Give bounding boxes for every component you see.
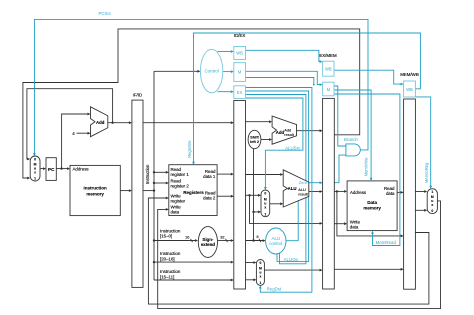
- svg-text:Shift: Shift: [250, 135, 259, 139]
- svg-text:result: result: [284, 132, 294, 137]
- svg-text:Address: Address: [73, 167, 90, 172]
- svg-text:RegDst: RegDst: [267, 286, 282, 291]
- svg-text:Add: Add: [276, 130, 285, 135]
- svg-text:WB: WB: [325, 67, 332, 72]
- svg-text:M: M: [238, 70, 242, 75]
- svg-text:result: result: [298, 192, 308, 197]
- svg-text:Instruction: Instruction: [160, 269, 181, 274]
- svg-text:6: 6: [257, 235, 259, 239]
- svg-text:memory: memory: [363, 206, 381, 211]
- svg-text:0: 0: [264, 191, 266, 195]
- svg-text:1: 1: [259, 281, 261, 285]
- svg-text:Instruction: Instruction: [160, 228, 181, 233]
- svg-text:0: 0: [259, 261, 261, 265]
- svg-text:data: data: [350, 225, 359, 230]
- svg-text:ID/EX: ID/EX: [234, 33, 246, 38]
- svg-text:EX/MEM: EX/MEM: [319, 53, 337, 58]
- svg-text:x: x: [431, 203, 433, 207]
- svg-text:MEM/WB: MEM/WB: [400, 72, 419, 77]
- svg-text:left 2: left 2: [250, 140, 259, 144]
- svg-text:memory: memory: [86, 191, 104, 196]
- svg-text:[15–11]: [15–11]: [160, 274, 174, 279]
- svg-text:MemtoReg: MemtoReg: [424, 162, 429, 183]
- svg-text:PC: PC: [48, 167, 55, 172]
- svg-text:32: 32: [220, 236, 224, 240]
- svg-text:16: 16: [185, 236, 189, 240]
- svg-text:data: data: [171, 209, 180, 214]
- svg-text:x: x: [259, 274, 261, 278]
- svg-text:Control: Control: [205, 69, 219, 74]
- svg-text:x: x: [34, 171, 36, 175]
- svg-text:ALUSrc: ALUSrc: [285, 146, 301, 151]
- svg-text:Branch: Branch: [344, 137, 358, 142]
- svg-text:Address: Address: [350, 190, 367, 195]
- svg-text:MemWrite: MemWrite: [363, 157, 368, 177]
- svg-text:Instruction: Instruction: [83, 186, 107, 191]
- svg-text:1: 1: [264, 212, 266, 216]
- svg-text:[15–0]: [15–0]: [160, 234, 172, 239]
- svg-text:Zero: Zero: [299, 180, 308, 185]
- svg-text:extend: extend: [201, 242, 215, 247]
- svg-text:ALU: ALU: [288, 186, 297, 191]
- svg-text:0: 0: [431, 209, 433, 213]
- svg-text:[20–16]: [20–16]: [160, 256, 175, 261]
- svg-text:Add: Add: [96, 120, 105, 125]
- svg-text:WB: WB: [406, 87, 413, 92]
- svg-text:data 1: data 1: [203, 174, 216, 179]
- svg-text:WB: WB: [236, 51, 243, 56]
- svg-text:Registers: Registers: [183, 190, 204, 195]
- svg-text:register 1: register 1: [171, 172, 190, 177]
- svg-text:IF/ID: IF/ID: [133, 93, 143, 98]
- svg-text:M: M: [327, 87, 331, 92]
- svg-text:RegWrite: RegWrite: [187, 140, 192, 158]
- svg-text:register: register: [171, 198, 186, 203]
- svg-text:x: x: [264, 205, 266, 209]
- svg-text:Instruction: Instruction: [145, 164, 150, 184]
- svg-text:control: control: [269, 241, 282, 246]
- svg-text:Instruction: Instruction: [160, 251, 181, 256]
- svg-text:ALUOp: ALUOp: [284, 257, 299, 262]
- svg-text:data 2: data 2: [203, 196, 216, 201]
- svg-text:EX: EX: [237, 90, 243, 95]
- svg-text:1: 1: [431, 190, 433, 194]
- svg-text:data: data: [386, 191, 395, 196]
- svg-text:PCSrc: PCSrc: [98, 11, 111, 16]
- svg-text:1: 1: [34, 177, 36, 181]
- svg-text:register 2: register 2: [171, 183, 190, 188]
- svg-text:MemRead: MemRead: [376, 240, 397, 245]
- svg-text:Data: Data: [367, 200, 377, 205]
- svg-text:0: 0: [34, 157, 36, 161]
